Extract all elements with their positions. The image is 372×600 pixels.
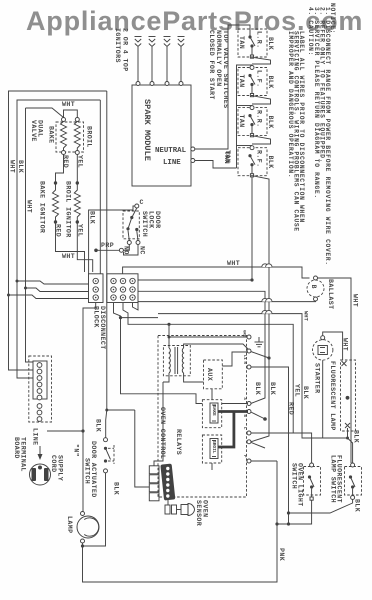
svg-text:BLK: BLK bbox=[302, 386, 309, 399]
wire strip feed bbox=[135, 410, 150, 487]
wire bus drop to transformer bbox=[168, 324, 170, 337]
svg-text:RED: RED bbox=[288, 402, 295, 415]
svg-text:CLOSED FOR START: CLOSED FOR START bbox=[208, 30, 215, 100]
ignitor electrode 4 bbox=[178, 37, 185, 47]
svg-text:WHT: WHT bbox=[62, 253, 75, 260]
svg-text:PRP: PRP bbox=[101, 242, 114, 249]
svg-text:AUX: AUX bbox=[206, 368, 213, 381]
wire hop at rail A y301.6 bbox=[262, 298, 268, 301]
svg-text:B: B bbox=[310, 285, 317, 289]
coil broil ignitor bbox=[74, 183, 80, 221]
dual valve dashed enclosure bbox=[56, 122, 84, 152]
terminal board dashed bbox=[29, 356, 52, 422]
coil BAKE valve bbox=[61, 122, 67, 151]
transformer T1 bbox=[163, 346, 190, 376]
node dual valve top terminals bbox=[62, 118, 66, 122]
wire broil valve to ignitor junction bbox=[76, 155, 78, 184]
wire ballast top WHT bbox=[318, 278, 352, 463]
ignitor electrode 1 bbox=[135, 37, 142, 47]
svg-text:L.F.: L.F. bbox=[256, 70, 263, 87]
wire PRP bbox=[97, 245, 129, 251]
svg-text:R.F.: R.F. bbox=[256, 150, 263, 167]
svg-text:NORMALLY OPEN: NORMALLY OPEN bbox=[215, 30, 222, 87]
relay BAKE dashed box bbox=[202, 400, 221, 428]
svg-text:L1: L1 bbox=[242, 355, 246, 360]
oven control bottom connector strip bbox=[149, 466, 159, 501]
oven sensor connector pieces bbox=[165, 505, 181, 514]
node line terminal bbox=[191, 159, 195, 163]
svg-text:P: P bbox=[242, 455, 246, 458]
wire terminal board to lamp bbox=[83, 303, 96, 512]
svg-text:SWITCH: SWITCH bbox=[291, 463, 298, 489]
wire aux to relays bbox=[222, 352, 248, 366]
svg-text:WHT: WHT bbox=[227, 260, 240, 267]
wire fl switch drain bbox=[289, 500, 353, 514]
svg-text:WHT: WHT bbox=[342, 338, 349, 351]
svg-text:IMPROPER AND DANGEROUS OPERATI: IMPROPER AND DANGEROUS OPERATION. bbox=[287, 31, 294, 178]
svg-text:BLK: BLK bbox=[254, 382, 261, 395]
relay BROIL dashed box bbox=[202, 435, 221, 463]
bus y291 bbox=[138, 291, 265, 403]
disconnect block left 1x3 bbox=[89, 274, 104, 303]
wire TAN left rail bbox=[237, 65, 253, 168]
svg-text:LAMP: LAMP bbox=[66, 516, 73, 533]
wire BLK bus bbox=[17, 100, 100, 378]
wire WHT bus top bbox=[123, 267, 310, 278]
wire BLK staircase sw1-sw2 bbox=[252, 58, 271, 65]
wire terminal 367 to RED rail bbox=[251, 367, 289, 513]
wire oven control bottom to lamp circuit bbox=[247, 459, 251, 463]
wire oven light switch drain bbox=[277, 500, 312, 524]
wire thick bake relay to terminal bbox=[218, 410, 248, 413]
wire sw4 bottom drop bbox=[251, 177, 253, 280]
svg-text:BOARD: BOARD bbox=[13, 437, 20, 459]
wire transformer secondary leads bbox=[163, 373, 169, 382]
fluorescent lamp tube bbox=[341, 360, 356, 431]
wire WHT valve feed bbox=[26, 108, 34, 362]
svg-text:BROIL: BROIL bbox=[86, 126, 93, 148]
svg-text:TOP VALVE SWITCHES: TOP VALVE SWITCHES bbox=[222, 30, 229, 108]
node junction bake ignitor bbox=[54, 181, 57, 184]
switch oven light bbox=[304, 463, 321, 500]
node PRP left end bbox=[94, 249, 98, 253]
wire transformer secondary to strip bbox=[154, 382, 163, 466]
wire starter top bbox=[323, 332, 343, 360]
svg-text:NC: NC bbox=[139, 246, 146, 255]
svg-text:BAKE IGNITOR: BAKE IGNITOR bbox=[39, 181, 46, 233]
wire BLK staircase sw3-sw4 bbox=[252, 136, 271, 144]
wire bake valve to ignitor junction bbox=[56, 155, 64, 184]
wire WHT left bus bbox=[9, 91, 107, 370]
svg-text:BLK: BLK bbox=[354, 499, 361, 512]
svg-text:SWITCH: SWITCH bbox=[141, 211, 148, 237]
node door lock C terminal bbox=[135, 204, 139, 208]
wire bake ignitor to block bbox=[56, 224, 85, 273]
svg-text:BLK: BLK bbox=[267, 156, 274, 169]
svg-text:BLK: BLK bbox=[95, 419, 102, 432]
wire rail x270 bbox=[251, 442, 265, 448]
svg-text:OVEN CONTROL: OVEN CONTROL bbox=[159, 407, 166, 459]
wire dual valve top bar bbox=[64, 110, 78, 118]
wire BLK staircase sw2-sw3 bbox=[252, 96, 271, 104]
wire NC drop bbox=[124, 245, 139, 256]
svg-text:WHT: WHT bbox=[62, 101, 75, 108]
wire BLK to door lock switch bbox=[89, 206, 135, 274]
node oven control edge terminals bbox=[247, 335, 251, 339]
wire ignitor lead 4 bbox=[180, 47, 182, 82]
svg-text:TAN: TAN bbox=[238, 75, 245, 88]
node jog dot bbox=[119, 316, 122, 319]
svg-text:WHT: WHT bbox=[303, 311, 310, 322]
wire ballast bottom bbox=[310, 300, 316, 303]
node spark module top terminals bbox=[136, 82, 140, 86]
notice text block bbox=[287, 3, 336, 266]
svg-text:VALVE: VALVE bbox=[30, 120, 37, 142]
ground at oven control bbox=[255, 337, 264, 347]
svg-text:N: N bbox=[242, 362, 246, 365]
lamp oven bbox=[77, 512, 99, 544]
wire hop at rail A y267 bbox=[262, 264, 268, 267]
wire line to TAN rail bbox=[195, 161, 237, 169]
svg-text:WHT: WHT bbox=[352, 294, 359, 307]
switch L.F. top valve bbox=[238, 66, 274, 97]
starter bbox=[313, 336, 333, 360]
svg-text:SPARK MODULE: SPARK MODULE bbox=[142, 99, 152, 161]
switch door actuated bbox=[104, 438, 115, 473]
node bake ignitor bottom bbox=[54, 220, 57, 223]
svg-text:TAN: TAN bbox=[238, 36, 245, 49]
wire relay feed inside box bbox=[158, 394, 202, 404]
svg-text:LINE: LINE bbox=[32, 428, 39, 445]
svg-text:BLK: BLK bbox=[267, 37, 274, 50]
wire sw4 drain bbox=[254, 176, 269, 181]
wire block bottom jog 2 bbox=[123, 303, 133, 325]
wire sensor drop bbox=[167, 500, 169, 505]
switch R.R. top valve bbox=[238, 106, 274, 137]
wire feed WHT left bus to disconnect block bbox=[9, 295, 89, 299]
wire tap sw3 bbox=[237, 105, 253, 107]
wire bottom return bbox=[83, 461, 278, 582]
ignitor electrode 2 bbox=[149, 37, 156, 47]
wire thick broil relay path bbox=[218, 413, 234, 448]
svg-text:R.R.: R.R. bbox=[256, 110, 263, 127]
wire tap sw4 bbox=[237, 145, 253, 147]
svg-text:RELAYS: RELAYS bbox=[175, 429, 182, 455]
svg-text:BALLAST: BALLAST bbox=[327, 279, 334, 310]
svg-text:BLK: BLK bbox=[267, 116, 274, 129]
svg-text:BAKE: BAKE bbox=[211, 405, 217, 416]
svg-text:BLK: BLK bbox=[353, 430, 360, 443]
wire block bottom jog 3 bbox=[133, 302, 139, 310]
wire door switch bottom bbox=[83, 473, 106, 546]
svg-text:FLUORESCENT LAMP: FLUORESCENT LAMP bbox=[329, 361, 336, 431]
relay AUX dashed box bbox=[204, 360, 223, 389]
wire lamp bottom to switch bbox=[347, 428, 349, 438]
svg-text:BLK: BLK bbox=[17, 160, 24, 173]
svg-text:4. CAUTION:: 4. CAUTION: bbox=[307, 7, 314, 56]
connector black pin header bbox=[160, 464, 175, 501]
svg-text:IGNITORS: IGNITORS bbox=[114, 28, 121, 63]
wire terminal 347 diagonal bbox=[251, 352, 269, 359]
switch R.F. top valve bbox=[224, 146, 274, 177]
node broil ignitor bottom bbox=[76, 220, 79, 223]
svg-text:BLK: BLK bbox=[89, 211, 96, 224]
svg-text:2 OR 4 TOP: 2 OR 4 TOP bbox=[122, 28, 129, 72]
svg-text:GRD: GRD bbox=[242, 330, 246, 338]
svg-text:WHT: WHT bbox=[9, 160, 16, 173]
oven sensor probe bbox=[181, 504, 195, 516]
wire broil ignitor to block bbox=[77, 224, 92, 273]
wire ignitor lead 3 bbox=[166, 47, 168, 82]
node splice on PRP bbox=[119, 248, 123, 252]
wire ignitor lead 1 bbox=[137, 47, 139, 82]
spark module U1 bbox=[132, 85, 191, 186]
svg-text:BLK: BLK bbox=[113, 482, 120, 495]
wire neutral to valve switch bus bbox=[195, 25, 250, 149]
wire feed BLK bus to disconnect block bbox=[17, 281, 89, 284]
svg-text:BROIL IGNITOR: BROIL IGNITOR bbox=[65, 181, 72, 238]
svg-text:TAN: TAN bbox=[224, 150, 231, 163]
coil bake ignitor bbox=[53, 183, 59, 221]
svg-text:BAKE: BAKE bbox=[48, 126, 55, 143]
wire feed WHT valve bus to disconnect block bbox=[26, 288, 89, 292]
node dual valve bottom terminals bbox=[62, 151, 66, 155]
disconnect block 3x3 bbox=[107, 274, 138, 303]
wire oven light feed bbox=[251, 433, 312, 463]
node neutral terminal bbox=[191, 147, 195, 151]
wire hop at rail B y267 bbox=[266, 264, 272, 267]
svg-text:BROIL: BROIL bbox=[211, 440, 217, 454]
svg-text:A: A bbox=[242, 398, 246, 401]
svg-text:CORD: CORD bbox=[50, 455, 57, 472]
svg-text:LAMP SWITCH: LAMP SWITCH bbox=[330, 455, 337, 503]
coil BROIL valve bbox=[74, 122, 80, 151]
svg-text:"N": "N" bbox=[73, 444, 80, 457]
svg-text:BLOCK: BLOCK bbox=[93, 306, 100, 328]
svg-text:TAN: TAN bbox=[238, 115, 245, 128]
svg-text:BLK: BLK bbox=[267, 76, 274, 89]
supply cord plug bbox=[30, 464, 51, 485]
switch L.R. top valve bbox=[238, 29, 274, 58]
wire hop at rail A y313.6 bbox=[262, 310, 268, 313]
wire hop at rail B y301.6 bbox=[266, 298, 272, 301]
svg-text:WHT: WHT bbox=[26, 200, 33, 213]
svg-text:LINE: LINE bbox=[163, 159, 181, 167]
wire block bottom jog 1 bbox=[114, 303, 159, 394]
switch door lock bbox=[123, 208, 140, 245]
svg-text:SWITCH: SWITCH bbox=[84, 458, 91, 484]
wire WHT left bus vertical drop to block area bbox=[106, 91, 107, 438]
bus y324 bbox=[133, 324, 293, 433]
wire transformer primary to terminal bbox=[169, 337, 249, 348]
svg-text:B: B bbox=[242, 415, 246, 418]
wire aux to bake relay link bbox=[211, 389, 213, 400]
svg-text:L.R.: L.R. bbox=[256, 31, 263, 48]
bus y280 bbox=[138, 279, 252, 281]
oven control dashed box bbox=[158, 336, 247, 498]
svg-text:NEUTRAL: NEUTRAL bbox=[155, 147, 187, 155]
switch fluorescent lamp bbox=[345, 463, 362, 500]
wire hop at rail B y313.6 bbox=[266, 310, 272, 313]
bus y313 bbox=[158, 314, 323, 438]
svg-text:YEL: YEL bbox=[294, 384, 301, 397]
wire broil relay stub bbox=[211, 463, 213, 470]
wire starter bottom drain bbox=[323, 360, 348, 438]
node junction broil ignitor bbox=[76, 181, 79, 184]
svg-text:L: L bbox=[242, 427, 246, 430]
svg-text:SENSOR: SENSOR bbox=[195, 500, 202, 526]
svg-text:PNK: PNK bbox=[278, 548, 285, 561]
wire ignitor lead 2 bbox=[151, 47, 153, 82]
svg-text:C: C bbox=[140, 199, 144, 206]
ballast B bbox=[307, 276, 324, 301]
wire transformer primary 2 bbox=[184, 344, 249, 350]
svg-text:STARTER: STARTER bbox=[314, 363, 321, 394]
svg-text:BLK: BLK bbox=[269, 382, 276, 395]
wire BLK bus drop bbox=[99, 100, 101, 274]
ignitor electrode 3 bbox=[164, 37, 171, 47]
wire red rail to lamp node bbox=[288, 513, 290, 524]
wire jog to oven control bbox=[121, 317, 159, 319]
bus y301 bbox=[138, 301, 310, 303]
